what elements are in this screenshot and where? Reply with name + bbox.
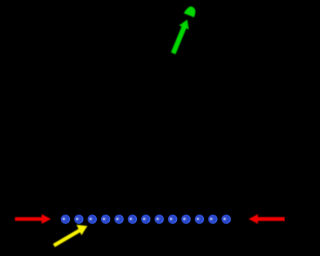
atom 3 [88, 215, 97, 224]
atom 8 [155, 215, 164, 224]
atom 9 [168, 215, 177, 224]
atom 7 [141, 215, 150, 224]
atom 11 [195, 215, 204, 224]
green ejection arrow [168, 18, 192, 56]
atom 13 [222, 215, 231, 224]
atom 6 [128, 215, 137, 224]
left red pressure arrow [15, 214, 51, 224]
yellow surface arrow [53, 221, 90, 247]
atom 2 [74, 215, 83, 224]
atom 4 [101, 215, 110, 224]
atom 1 [61, 215, 70, 224]
atom 5 [114, 215, 123, 224]
atom 10 [181, 215, 190, 224]
right red pressure arrow [249, 214, 285, 224]
ejected atom (green dome fragment) [184, 6, 196, 17]
atom 12 [208, 215, 217, 224]
